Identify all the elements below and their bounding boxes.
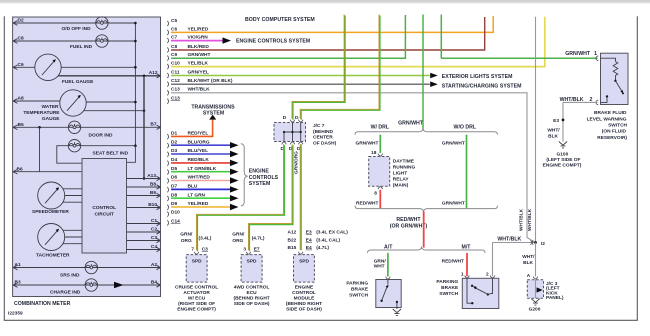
- svg-text:DOOR IND: DOOR IND: [89, 133, 114, 139]
- pin 8: [378, 187, 383, 189]
- svg-text:B10: B10: [148, 202, 157, 208]
- svg-text:COMBINATION METER: COMBINATION METER: [14, 301, 71, 307]
- svg-text:SIDE OF DASH): SIDE OF DASH): [234, 301, 270, 307]
- svg-text:A: A: [527, 273, 531, 279]
- wire B9 exit: [127, 193, 161, 197]
- svg-text:SWITCH: SWITCH: [608, 123, 627, 129]
- pin D3 wire BLU/YEL: [167, 148, 238, 157]
- svg-text:A12: A12: [149, 70, 158, 76]
- svg-text:LEVEL WARNING: LEVEL WARNING: [587, 116, 627, 122]
- pin 3 E7 4wd: [243, 247, 260, 255]
- window top bar: [0, 0, 650, 3]
- pin C9 wire GRN/WHT: [167, 15, 405, 61]
- pin C11 wire GRN/YEL: [167, 69, 438, 78]
- pin list ECM A12 E3 / B22 E4 / B15 E4: [287, 230, 348, 255]
- svg-text:(RIGHT SIDE OF: (RIGHT SIDE OF: [178, 301, 215, 307]
- svg-text:WHT/BLK: WHT/BLK: [188, 87, 211, 93]
- gauge WATER TEMPERATURE GAUGE: [60, 90, 86, 116]
- wire WHT/BLK from top (off page): [535, 17, 537, 243]
- svg-text:RED/WHT: RED/WHT: [396, 217, 421, 223]
- svg-text:B6: B6: [17, 166, 23, 172]
- tachometer wires to control circuit: [63, 230, 82, 243]
- svg-text:SPD: SPD: [247, 258, 257, 264]
- svg-text:VIO/GRN: VIO/GRN: [188, 34, 209, 40]
- wire A12 from gauge: [58, 75, 160, 77]
- junction B5 branch: [38, 126, 41, 129]
- wire B10 exit: [127, 205, 161, 209]
- svg-text:RED/WHT: RED/WHT: [356, 200, 378, 206]
- svg-text:SIDE OF DASH): SIDE OF DASH): [286, 306, 322, 312]
- lamp SEAT BELT IND: [68, 140, 80, 152]
- svg-text:W/O DRL: W/O DRL: [454, 125, 477, 131]
- svg-text:D2: D2: [18, 18, 24, 24]
- pin D5 wire LT GRN/BLK: [167, 166, 238, 175]
- svg-text:7: 7: [191, 247, 194, 253]
- svg-text:B3: B3: [15, 280, 21, 286]
- svg-text:C10: C10: [171, 61, 180, 67]
- svg-text:GRN/WHT: GRN/WHT: [442, 140, 465, 146]
- wire B5 to door lamp: [13, 125, 68, 130]
- svg-text:SPD: SPD: [192, 258, 202, 264]
- wire seat belt lamp left to control circuit: [57, 146, 82, 164]
- svg-text:C7: C7: [171, 34, 177, 40]
- label GRN/ORG (4.7L): [232, 232, 265, 245]
- svg-text:(3.4L EX CAL): (3.4L EX CAL): [316, 230, 348, 236]
- node I2: [534, 241, 537, 244]
- svg-text:ECU: ECU: [247, 290, 258, 296]
- parking brake switch A/T: [376, 277, 401, 309]
- svg-text:DAYTIME: DAYTIME: [393, 158, 415, 164]
- svg-text:C5: C5: [171, 18, 177, 24]
- wire WHT/BLK I2 down to J/C 3: [535, 243, 537, 277]
- pin C7 wire VIO/GRN: [167, 34, 231, 43]
- svg-text:W/ ECU: W/ ECU: [188, 295, 206, 301]
- pin D6 wire WHT/RED: [167, 175, 238, 184]
- svg-text:LIGHT: LIGHT: [393, 170, 407, 176]
- pin C13 not used: [167, 95, 180, 103]
- svg-text:C3: C3: [151, 235, 157, 241]
- header ENGINE CONTROLS SYSTEM (D group): [249, 169, 279, 188]
- svg-text:SYSTEM: SYSTEM: [249, 181, 271, 187]
- svg-text:(BEHIND RIGHT: (BEHIND RIGHT: [286, 301, 322, 307]
- pin C6 wire YEL/RED: [167, 16, 493, 35]
- svg-text:(3.4L): (3.4L): [199, 235, 212, 241]
- label GRN/ORG (3.4L): [180, 232, 211, 245]
- wire GRN/WHT w/o drl branch: [466, 135, 468, 208]
- svg-text:2: 2: [486, 272, 489, 278]
- caption parking brake switch A/T: [346, 281, 369, 299]
- pin D2 wire BLU/ORG: [167, 139, 238, 148]
- svg-text:(BEHIND: (BEHIND: [313, 129, 334, 135]
- svg-text:GRN/WHT: GRN/WHT: [355, 140, 378, 146]
- vertical bus lamps: [134, 23, 136, 146]
- svg-text:C13: C13: [171, 87, 180, 93]
- svg-text:18: 18: [371, 150, 377, 156]
- GRN/ORG wire from top to J/C 7 pin a: [292, 15, 345, 120]
- svg-text:CONTROL: CONTROL: [92, 205, 116, 211]
- wire RED/WHT from relay pin 8: [379, 190, 381, 208]
- svg-text:BLK: BLK: [523, 260, 533, 266]
- pin D4 wire RED/BLK: [167, 157, 238, 166]
- wire C1 exit: [127, 221, 161, 225]
- svg-text:C1: C1: [151, 218, 157, 224]
- svg-text:RED/WHT: RED/WHT: [442, 258, 464, 264]
- svg-text:ENGINE: ENGINE: [295, 284, 314, 290]
- svg-text:STARTING/CHARGING SYSTEM: STARTING/CHARGING SYSTEM: [442, 84, 522, 90]
- box SPD engine control module: [294, 255, 315, 283]
- pin D10 not used: [167, 210, 180, 217]
- svg-text:GRN/WHT: GRN/WHT: [565, 51, 591, 57]
- pin D9 wire YEL/RED: [167, 201, 238, 210]
- svg-text:B5: B5: [18, 122, 24, 128]
- svg-text:WHT/BLK: WHT/BLK: [518, 208, 524, 231]
- wire RED/WHT center: [423, 211, 425, 247]
- svg-text:SWITCH: SWITCH: [439, 291, 458, 297]
- svg-text:ACTUATOR: ACTUATOR: [183, 290, 210, 296]
- svg-text:C8: C8: [18, 36, 24, 42]
- svg-text:B22: B22: [287, 237, 296, 243]
- label RED/WHT (OR GRN/WHT): [390, 217, 428, 229]
- svg-text:CRUISE CONTROL: CRUISE CONTROL: [175, 284, 218, 290]
- svg-text:C11: C11: [171, 69, 180, 75]
- svg-text:SEAT BELT IND: SEAT BELT IND: [93, 151, 129, 157]
- lamp SRS IND: [85, 261, 97, 273]
- pin C5: [167, 18, 177, 26]
- svg-text:BRAKE FLUID: BRAKE FLUID: [594, 110, 627, 116]
- wire seat belt lamp right to bus: [81, 145, 136, 147]
- svg-text:I2: I2: [541, 241, 545, 247]
- svg-text:TACHOMETER: TACHOMETER: [36, 253, 70, 259]
- pin C12 wire BLK/WHT: [167, 78, 438, 87]
- svg-text:(MAIN): (MAIN): [393, 182, 409, 188]
- wire A13 exit: [127, 176, 161, 180]
- svg-text:A13: A13: [147, 173, 156, 179]
- caption engine control module: [286, 284, 322, 312]
- svg-text:G100: G100: [557, 151, 569, 157]
- caption parking brake switch M/T: [436, 279, 459, 297]
- svg-text:OF DASH): OF DASH): [313, 141, 337, 147]
- wire RED/WHT to parking brake switch (M/T): [466, 253, 468, 276]
- relay DAYTIME RUNNING LIGHT RELAY (MAIN): [369, 157, 390, 187]
- wire WHT/BLK from M/T pin 2 up to I2: [493, 243, 536, 277]
- label J/C 7 (BEHIND CENTER OF DASH): [313, 123, 337, 147]
- svg-text:ENGINE COMPT): ENGINE COMPT): [543, 163, 582, 169]
- svg-text:YEL/RED: YEL/RED: [188, 26, 209, 32]
- wire GRN/WHT to parking brake switch (A/T): [387, 253, 389, 277]
- wire GRN/WHT vertical to brake fluid switch pin 1: [441, 15, 597, 59]
- wire A8 to water temp gauge: [13, 99, 60, 104]
- svg-text:D: D: [283, 115, 287, 121]
- svg-text:BLK/WHT (OR BLK): BLK/WHT (OR BLK): [188, 78, 233, 84]
- svg-text:A8: A8: [18, 96, 24, 102]
- box SPD cruise control actuator: [186, 255, 207, 283]
- pin D1 wire RED/YEL to transmissions: [167, 120, 212, 140]
- svg-text:TEMPERATURE: TEMPERATURE: [23, 110, 60, 116]
- svg-text:(4.7L): (4.7L): [316, 245, 329, 251]
- svg-text:(3.4L CAL): (3.4L CAL): [316, 237, 340, 243]
- combination meter panel: [13, 17, 161, 297]
- svg-text:PARKING: PARKING: [346, 281, 368, 287]
- svg-text:SYSTEM: SYSTEM: [203, 111, 224, 117]
- pin C10 wire YEL/BLK: [167, 17, 545, 69]
- svg-text:A/T: A/T: [384, 244, 393, 250]
- lamp DOOR IND: [68, 121, 80, 133]
- wire wt gauge to A13 vertical: [84, 110, 144, 112]
- junction dot A12 vertical: [143, 75, 146, 78]
- svg-text:CHARGE IND: CHARGE IND: [50, 289, 81, 295]
- svg-text:4WD CONTROL: 4WD CONTROL: [234, 284, 270, 290]
- caption 4wd control ecu: [233, 284, 269, 307]
- svg-text:FUEL IND: FUEL IND: [70, 44, 93, 50]
- svg-text:GRN/: GRN/: [232, 232, 245, 238]
- gauge FUEL GAUGE: [35, 54, 61, 80]
- svg-text:ENGINE COMPT): ENGINE COMPT): [177, 306, 216, 312]
- svg-text:BODY COMPUTER SYSTEM: BODY COMPUTER SYSTEM: [245, 17, 315, 23]
- svg-text:C9: C9: [171, 52, 177, 58]
- svg-text:GRN/ORG: GRN/ORG: [293, 151, 299, 174]
- parking brake switch M/T: [461, 272, 499, 309]
- wire B6 into control circuit: [13, 169, 82, 174]
- svg-text:(OR GRN/WHT): (OR GRN/WHT): [390, 223, 428, 229]
- caption brake fluid level warning switch: [587, 110, 628, 141]
- svg-text:TRANSMISSIONS: TRANSMISSIONS: [191, 104, 235, 110]
- svg-text:I22359: I22359: [8, 311, 23, 317]
- svg-text:SPEEDOMETER: SPEEDOMETER: [32, 209, 69, 215]
- splice E3: [562, 119, 565, 122]
- lamp O/D OFF IND: [96, 17, 108, 29]
- transmissions system arrow: [191, 104, 235, 119]
- svg-text:A12: A12: [287, 230, 296, 236]
- svg-text:BRAKE: BRAKE: [441, 285, 459, 291]
- svg-text:MODULE: MODULE: [294, 295, 316, 301]
- svg-text:WHT/: WHT/: [547, 127, 560, 133]
- inline connector marks: [531, 240, 534, 245]
- lamp CHARGE IND: [85, 279, 97, 291]
- svg-text:C6: C6: [18, 62, 24, 68]
- wire D2 to O/D OFF lamp: [13, 21, 97, 26]
- svg-text:(BEHIND RIGHT: (BEHIND RIGHT: [233, 295, 269, 301]
- GRN/ORG wire J/C7 to ECM SPD: [300, 144, 301, 250]
- svg-text:SPD: SPD: [299, 258, 309, 264]
- svg-text:GRN/WHT: GRN/WHT: [188, 52, 211, 58]
- svg-text:J/C 7: J/C 7: [313, 123, 325, 129]
- svg-text:GRN/WHT: GRN/WHT: [442, 200, 465, 206]
- pin C13 wire WHT/BLK: [167, 87, 535, 243]
- svg-text:PARKING: PARKING: [436, 279, 458, 285]
- wire C4 exit: [127, 247, 161, 251]
- GRN/ORG wire J/C7 to cruise SPD: [197, 144, 285, 251]
- svg-text:G200: G200: [529, 306, 541, 312]
- wire B3 to charge lamp: [13, 283, 85, 288]
- wire C2 exit: [127, 230, 161, 234]
- svg-text:(4.7L): (4.7L): [252, 235, 265, 241]
- label J/C 3 (LEFT KICK PANEL): [546, 281, 564, 301]
- svg-text:3: 3: [243, 247, 246, 253]
- svg-text:PANEL): PANEL): [546, 295, 564, 301]
- ground G100: [559, 142, 567, 148]
- wire gauge to bus: [61, 66, 135, 68]
- svg-text:A1: A1: [15, 262, 21, 268]
- svg-text:WHT: WHT: [374, 264, 385, 270]
- svg-text:B8: B8: [150, 181, 156, 187]
- brace W/ DRL vs W/O DRL: [355, 129, 498, 135]
- svg-text:B4: B4: [151, 279, 157, 285]
- svg-text:E3: E3: [553, 118, 559, 124]
- brace merge to RED/WHT: [355, 206, 498, 212]
- wire wt gauge to bus: [86, 101, 135, 103]
- pin C14 not used: [167, 218, 180, 225]
- svg-text:C4: C4: [151, 244, 157, 250]
- svg-text:GRN/YEL: GRN/YEL: [188, 69, 209, 75]
- svg-text:RESERVOIR): RESERVOIR): [597, 135, 627, 141]
- gauge SPEEDOMETER: [38, 182, 65, 209]
- svg-text:BLK: BLK: [548, 133, 558, 139]
- svg-text:B9: B9: [150, 190, 156, 196]
- svg-text:BLK/RED: BLK/RED: [188, 44, 210, 50]
- wire A1 to SRS lamp: [13, 265, 85, 270]
- svg-text:GAUGE: GAUGE: [42, 116, 60, 122]
- svg-text:ENGINE CONTROLS SYSTEM: ENGINE CONTROLS SYSTEM: [236, 39, 310, 45]
- svg-text:GRN/WHT: GRN/WHT: [398, 120, 424, 126]
- wire SRS lamp to A2 exit: [97, 265, 160, 269]
- wire C3 exit: [127, 238, 161, 242]
- svg-text:GRN/: GRN/: [374, 258, 387, 264]
- svg-text:SRS IND: SRS IND: [60, 272, 80, 278]
- pin D8 wire LT GRN: [167, 192, 238, 201]
- svg-text:ENGINE: ENGINE: [249, 169, 270, 175]
- GRN/ORG wire J/C7 to 4wd SPD: [249, 144, 294, 251]
- svg-text:ORG: ORG: [232, 238, 243, 244]
- svg-text:M/T: M/T: [462, 244, 472, 250]
- svg-text:C8: C8: [171, 44, 177, 50]
- svg-text:BRAKE: BRAKE: [351, 287, 369, 293]
- wire GRN/WHT to DRL relay pin 18: [379, 135, 381, 153]
- ground below A/T switch: [393, 309, 401, 315]
- svg-text:CENTER: CENTER: [313, 135, 333, 141]
- wire B8 exit: [127, 185, 161, 189]
- svg-text:B15: B15: [287, 245, 296, 251]
- junction connector J/C 7: [274, 115, 306, 152]
- gauge TACHOMETER: [38, 224, 65, 251]
- svg-text:SWITCH: SWITCH: [349, 293, 368, 299]
- svg-text:D10: D10: [171, 210, 180, 216]
- svg-text:FUEL GAUGE: FUEL GAUGE: [62, 79, 94, 85]
- svg-text:1: 1: [461, 272, 464, 278]
- wire GRN/WHT vertical to DRL brace: [422, 15, 424, 130]
- pin 7 C3 cruise: [191, 247, 208, 255]
- speedometer wires to control circuit: [63, 189, 82, 202]
- vertical A12-A13 link: [143, 76, 145, 179]
- wire door lamp to B7 exit: [81, 126, 161, 128]
- svg-text:RELAY: RELAY: [393, 176, 410, 182]
- brake fluid level warning switch: [560, 51, 628, 105]
- wire lamp to bus: [107, 22, 135, 24]
- wire C6 to fuel gauge: [13, 65, 35, 70]
- GRN/ORG wire from top to J/C 7 pin b: [300, 15, 380, 120]
- brace A/T vs M/T: [368, 247, 486, 253]
- svg-text:YEL/BLK: YEL/BLK: [188, 61, 209, 67]
- wire charge lamp to B4 exit with diode arrow: [97, 283, 160, 287]
- svg-text:CONTROLS: CONTROLS: [249, 175, 279, 181]
- caption cruise control actuator: [175, 284, 218, 312]
- svg-text:WHT/BLK: WHT/BLK: [527, 208, 533, 231]
- pin D7 wire BLU: [167, 184, 238, 193]
- svg-text:CONTROL: CONTROL: [292, 290, 316, 296]
- svg-text:WHT/BLK: WHT/BLK: [497, 236, 521, 242]
- svg-text:EXTERIOR LIGHTS SYSTEM: EXTERIOR LIGHTS SYSTEM: [442, 74, 513, 80]
- svg-text:GRN/: GRN/: [180, 232, 193, 238]
- svg-text:W/ DRL: W/ DRL: [371, 125, 390, 131]
- lamp FUEL IND: [96, 35, 108, 47]
- svg-text:8: 8: [374, 190, 377, 196]
- svg-text:B7: B7: [150, 122, 156, 128]
- pin C8 wire BLK/RED: [167, 17, 484, 53]
- bus into control circuit box: [127, 146, 136, 163]
- svg-text:WATER: WATER: [42, 104, 60, 110]
- svg-text:A2: A2: [151, 262, 157, 268]
- svg-text:WHT/: WHT/: [522, 254, 535, 260]
- brace engine controls system: [241, 144, 248, 206]
- control circuit box: [82, 159, 127, 254]
- svg-text:ORG: ORG: [181, 238, 192, 244]
- wire WHT/BLK pin 2 to E3 and ground: [563, 102, 598, 141]
- svg-text:CIRCUIT: CIRCUIT: [94, 212, 114, 218]
- svg-text:(ON FLUID: (ON FLUID: [602, 129, 627, 135]
- junction connector J/C 3: [527, 273, 544, 298]
- svg-text:(LEFT SIDE OF: (LEFT SIDE OF: [546, 157, 580, 163]
- wire B5 down to B6: [39, 127, 41, 171]
- svg-text:C12: C12: [171, 78, 180, 84]
- box SPD 4wd control ecu: [241, 255, 262, 283]
- svg-text:O/D OFF IND: O/D OFF IND: [62, 26, 92, 32]
- svg-text:C6: C6: [171, 26, 177, 32]
- wire C8 to FUEL IND lamp: [13, 39, 97, 44]
- svg-text:C2: C2: [151, 226, 157, 232]
- svg-text:RUNNING: RUNNING: [393, 164, 416, 170]
- wire lamp to bus: [107, 40, 135, 42]
- ground G200: [531, 299, 539, 305]
